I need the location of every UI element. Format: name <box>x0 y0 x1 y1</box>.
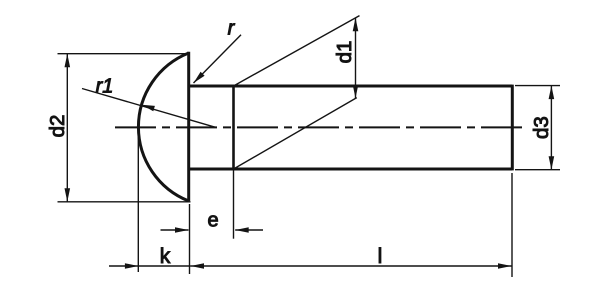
k left extension line <box>137 129 139 272</box>
shank top line <box>189 85 513 88</box>
svg-text:l: l <box>378 245 383 268</box>
r arrowhead <box>194 72 205 83</box>
shank right edge <box>511 85 514 171</box>
d2 dimension line <box>66 54 68 202</box>
d2 arrow bottom <box>65 188 71 202</box>
svg-text:r1: r1 <box>96 76 114 98</box>
d1 oblique extension line bottom <box>234 98 357 169</box>
d1 arrow top <box>353 18 359 32</box>
r1 leader line <box>82 89 216 128</box>
centerline (axis) <box>115 126 522 128</box>
svg-text:k: k <box>160 245 171 268</box>
e dimension line right tail <box>235 229 263 231</box>
d2 top extension line <box>58 53 191 55</box>
r1 arrowhead on arc <box>142 105 155 112</box>
e arrow left (points right) <box>175 227 189 233</box>
l right extension line <box>511 173 513 277</box>
l arrow left (points left) <box>191 263 205 269</box>
head-face extension line (for e, k, l) <box>189 204 191 274</box>
r leader line <box>194 35 242 83</box>
head face (vertical edge of head) <box>187 52 190 202</box>
d2 arrow top <box>65 54 71 67</box>
d3 top extension line <box>515 85 560 87</box>
inner edge line (end of fillet, e) <box>232 86 235 169</box>
l arrow right (points right) <box>498 263 512 269</box>
svg-text:d3: d3 <box>530 116 553 139</box>
d2 bottom extension line <box>58 201 191 203</box>
d3 bottom extension line <box>515 169 560 171</box>
d3 arrow top <box>549 86 555 100</box>
l dimension line <box>191 265 512 267</box>
d1 dimension line <box>355 18 357 99</box>
svg-text:e: e <box>207 210 218 232</box>
k arrow (outside left, points right) <box>125 263 138 269</box>
d1 oblique extension line top <box>234 16 360 86</box>
d3 arrow bottom <box>549 156 555 170</box>
svg-text:d2: d2 <box>46 115 69 138</box>
d3 dimension line <box>550 86 552 170</box>
e right extension line <box>233 170 235 239</box>
e dimension line left tail <box>161 229 189 231</box>
shank bottom line <box>189 168 513 171</box>
d1 arrow bottom <box>353 85 359 99</box>
e arrow right (points left) <box>235 227 249 233</box>
svg-text:d1: d1 <box>333 41 356 64</box>
k dimension line with outside tail <box>109 265 190 267</box>
head arc <box>138 53 188 201</box>
